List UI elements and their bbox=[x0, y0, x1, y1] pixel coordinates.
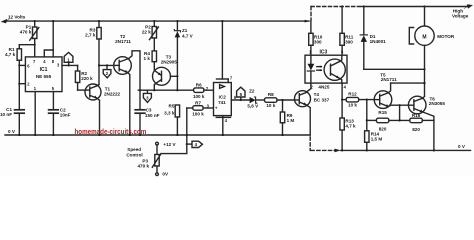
op IC1 NE555 box bbox=[25, 20, 62, 92]
node 12V rail end arrow bbox=[305, 20, 310, 23]
potentiometer P3 speed control bbox=[138, 142, 161, 175]
node R3/T2 base junction bbox=[98, 64, 100, 66]
resistor R13 bbox=[340, 118, 356, 151]
svg-text:R6: R6 bbox=[196, 83, 202, 88]
svg-text:R12: R12 bbox=[348, 91, 357, 96]
resistor R4 bbox=[144, 51, 157, 71]
svg-text:10 k: 10 k bbox=[348, 103, 357, 108]
resistor R10 bbox=[309, 21, 323, 55]
resistor R14 bbox=[365, 131, 383, 152]
svg-text:470 k: 470 k bbox=[138, 164, 150, 169]
svg-text:BC 337: BC 337 bbox=[314, 97, 330, 102]
svg-text:R5: R5 bbox=[169, 104, 175, 109]
svg-text:IC1: IC1 bbox=[40, 67, 48, 73]
node marker 2 bbox=[103, 65, 111, 77]
node high voltage arrow bbox=[464, 5, 472, 9]
node marker 5 bbox=[237, 87, 245, 100]
wire R14 column bbox=[366, 100, 368, 131]
resistor R3 bbox=[85, 20, 101, 85]
resistor R12 bbox=[341, 83, 374, 118]
svg-text:1N4001: 1N4001 bbox=[370, 39, 387, 44]
svg-text:22 k: 22 k bbox=[142, 29, 151, 34]
op-amp IC2 741 box bbox=[206, 75, 237, 122]
transistor T5 2N1711 bbox=[374, 72, 397, 108]
svg-text:1 M: 1 M bbox=[287, 118, 295, 123]
boundary dashed bottom bbox=[310, 137, 334, 150]
wire T2 emitter to 0V bbox=[127, 72, 130, 135]
svg-text:Z2: Z2 bbox=[249, 89, 255, 94]
wire 12V top rail bbox=[5, 20, 309, 22]
wire high voltage rail bbox=[362, 6, 468, 8]
svg-text:R8: R8 bbox=[268, 92, 274, 97]
potentiometer P1 bbox=[20, 20, 39, 45]
svg-text:R15: R15 bbox=[378, 110, 387, 115]
svg-text:0V: 0V bbox=[162, 172, 169, 177]
transistor T4 BC337 bbox=[295, 91, 330, 107]
svg-text:M: M bbox=[422, 35, 426, 41]
capacitor C2 bbox=[49, 108, 71, 137]
svg-text:IC2: IC2 bbox=[219, 95, 227, 100]
svg-text:4N25: 4N25 bbox=[318, 85, 329, 90]
resistor R1 bbox=[5, 45, 22, 61]
node marker 3 bbox=[143, 90, 151, 102]
wire IC2 pin4 to 0V bbox=[216, 116, 230, 136]
resistor R15 bbox=[376, 110, 409, 131]
wire R1 bottom to C1 bbox=[18, 60, 20, 109]
wire T4 collector to IC3 pin2 bbox=[306, 83, 311, 93]
node R14 top junction bbox=[366, 99, 368, 101]
svg-text:MOTOR: MOTOR bbox=[437, 34, 455, 39]
svg-text:390: 390 bbox=[345, 39, 353, 44]
svg-text:100 k: 100 k bbox=[192, 111, 204, 116]
boundary dashed top bbox=[311, 7, 362, 21]
wire T4 emitter to 0V end bbox=[306, 105, 310, 135]
svg-text:1,5 M: 1,5 M bbox=[371, 137, 383, 142]
svg-text:Speed: Speed bbox=[127, 147, 141, 152]
svg-text:2N1711: 2N1711 bbox=[381, 77, 397, 82]
svg-text:2N2905: 2N2905 bbox=[161, 59, 178, 64]
zener Z1 bbox=[174, 20, 193, 90]
svg-text:2,7 k: 2,7 k bbox=[85, 33, 96, 38]
resistor R11 bbox=[340, 5, 354, 55]
wire P1 junction to IC1 pin7 bbox=[34, 45, 36, 57]
svg-text:NE 555: NE 555 bbox=[36, 74, 52, 79]
wire T3 collector down bbox=[153, 85, 155, 90]
wire D1 to motor node bbox=[364, 68, 425, 70]
svg-text:homemade-circuits.com: homemade-circuits.com bbox=[75, 127, 147, 136]
svg-text:3,3 k: 3,3 k bbox=[164, 111, 175, 116]
svg-text:2N2222: 2N2222 bbox=[104, 92, 121, 97]
wire to T2 base bbox=[99, 64, 114, 66]
svg-text:12 Volts: 12 Volts bbox=[8, 15, 26, 20]
wire marker4 to P3 wiper bbox=[161, 144, 187, 154]
wire IC1 pin5 down bbox=[52, 92, 54, 110]
svg-text:1 k: 1 k bbox=[144, 56, 151, 61]
wire IC1 pin3 output bbox=[62, 64, 78, 66]
transistor T1 2N2222 bbox=[85, 84, 121, 100]
wire 0V right rail bbox=[341, 149, 471, 151]
wire IC1 pin1 to 0V bbox=[34, 92, 36, 135]
svg-text:220 k: 220 k bbox=[81, 76, 93, 81]
svg-text:150 nF: 150 nF bbox=[145, 113, 160, 118]
svg-text:+12 V: +12 V bbox=[163, 142, 176, 147]
resistor R9 bbox=[280, 99, 294, 136]
zener Z2 bbox=[247, 89, 264, 109]
svg-text:820: 820 bbox=[412, 127, 420, 132]
svg-text:Voltage: Voltage bbox=[452, 14, 469, 19]
svg-text:0 V: 0 V bbox=[458, 144, 466, 149]
svg-text:4,7 k: 4,7 k bbox=[345, 124, 356, 129]
resistor R6 bbox=[193, 83, 214, 99]
potentiometer P2 bbox=[142, 20, 159, 51]
node marker 4 bbox=[186, 141, 203, 147]
capacitor C3 bbox=[135, 90, 159, 136]
transistor T2 2N1711 bbox=[114, 34, 132, 74]
wire IC2 pin7 supply bbox=[217, 20, 229, 83]
capacitor C1 bbox=[0, 107, 24, 136]
svg-text:R16: R16 bbox=[412, 113, 421, 118]
svg-text:Z1: Z1 bbox=[182, 28, 188, 33]
node T3 base junction bbox=[176, 75, 178, 77]
resistor R5 bbox=[164, 104, 179, 136]
svg-text:2N3055: 2N3055 bbox=[429, 101, 446, 106]
svg-text:10nF: 10nF bbox=[60, 113, 71, 118]
wire R2 to T1 base bbox=[78, 89, 86, 91]
wire 0V left rail bbox=[5, 134, 310, 136]
wire T5 collector bbox=[388, 83, 391, 93]
wire T6 collector to motor bbox=[422, 97, 424, 99]
svg-text:R7: R7 bbox=[195, 101, 201, 106]
node 12V supply arrow bbox=[2, 19, 10, 23]
svg-text:Control: Control bbox=[126, 153, 142, 158]
node pin2 junction bbox=[18, 83, 20, 85]
svg-text:IC3: IC3 bbox=[320, 49, 328, 55]
svg-text:741: 741 bbox=[218, 100, 226, 105]
svg-text:10 k: 10 k bbox=[266, 103, 275, 108]
node R5 junction bbox=[176, 89, 178, 91]
wire R15 R16 row bbox=[367, 119, 377, 121]
wire to IC1 pin 2 bbox=[19, 83, 25, 85]
resistor R2 bbox=[75, 65, 93, 90]
opto-coupler IC3 4N25 bbox=[305, 49, 347, 89]
wire T5 emitter to T6 base bbox=[388, 105, 408, 106]
svg-text:4,7 V: 4,7 V bbox=[182, 33, 194, 38]
wire T1 emitter to 0V bbox=[99, 100, 101, 135]
transistor T6 2N3055 bbox=[408, 96, 445, 114]
wire to IC1 pin 6 bbox=[19, 64, 25, 66]
wire summing node horizontal bbox=[138, 89, 193, 91]
svg-text:2N1711: 2N1711 bbox=[115, 39, 131, 44]
svg-text:10 nF: 10 nF bbox=[0, 112, 12, 117]
svg-text:5,6 V: 5,6 V bbox=[247, 104, 259, 109]
svg-text:4,7 k: 4,7 k bbox=[5, 52, 16, 57]
resistor R8 bbox=[265, 92, 295, 108]
node marker 1 bbox=[64, 52, 73, 65]
diode D1 bbox=[360, 5, 386, 69]
motor M bbox=[409, 5, 455, 95]
wire P1 bottom to R1 top bbox=[19, 44, 34, 46]
wire T2 collector loop bbox=[129, 51, 140, 90]
transistor T3 2N2905 bbox=[153, 55, 178, 86]
wire R7 to speed control node bbox=[186, 108, 188, 144]
node pin6 junction bbox=[18, 64, 20, 66]
svg-text:470 k: 470 k bbox=[20, 29, 32, 34]
node boundary arrowhead bbox=[335, 149, 341, 153]
wire IC2 pin6 output bbox=[231, 99, 249, 101]
resistor R7 bbox=[187, 101, 214, 117]
svg-text:100 k: 100 k bbox=[193, 94, 205, 99]
resistor R16 bbox=[410, 113, 434, 132]
svg-text:300: 300 bbox=[314, 39, 322, 44]
svg-text:820: 820 bbox=[379, 126, 387, 131]
wire T6 emitter to 0V bbox=[422, 112, 434, 150]
svg-text:0 V: 0 V bbox=[8, 129, 16, 134]
